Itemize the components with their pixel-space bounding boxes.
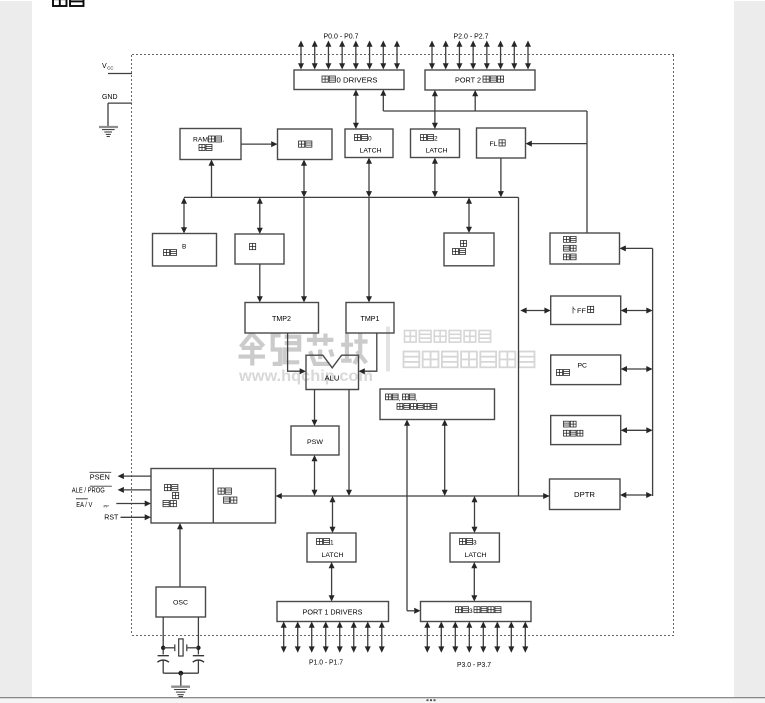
box port0 drivers <box>294 70 404 90</box>
box B register <box>153 234 217 267</box>
watermark tagline 1 <box>405 331 417 343</box>
svg-text:PSEN: PSEN <box>90 475 110 482</box>
svg-text:P2.0 - P2.7: P2.0 - P2.7 <box>454 34 489 41</box>
svg-text:PORT 2: PORT 2 <box>455 78 481 85</box>
arrow buffer to internal bus <box>525 310 546 312</box>
wire flash input from program address <box>529 143 587 145</box>
svg-text:PORT 1 DRIVERS: PORT 1 DRIVERS <box>303 609 363 616</box>
ground symbol top-left <box>99 126 118 128</box>
svg-text:B: B <box>182 244 186 251</box>
box RAM address register <box>180 129 241 160</box>
arrow RAM addr reg from bus <box>211 163 213 197</box>
svg-text:RST: RST <box>104 514 119 521</box>
page bottom separator line and strip <box>0 698 765 703</box>
svg-text:LATCH: LATCH <box>322 552 344 559</box>
box stack pointer <box>444 233 494 266</box>
arrow buffer to right rail <box>625 310 648 312</box>
wire address bus to port drivers <box>382 93 384 112</box>
svg-text:3: 3 <box>469 608 473 615</box>
wire TMP1 to ALU <box>364 333 377 371</box>
arrow DPTR to right rail <box>625 494 649 496</box>
crystal symbol <box>163 647 174 649</box>
internal bus right vertical <box>518 197 520 496</box>
port0 pin arrows <box>300 45 302 65</box>
box TMP2 <box>245 303 319 334</box>
arrow port2 drivers to port2 latch <box>434 95 436 125</box>
svg-text:OSC: OSC <box>173 600 188 607</box>
crystal junction dots <box>161 646 165 650</box>
svg-text:LATCH: LATCH <box>426 148 448 155</box>
bottom ellipsis dots <box>427 699 436 701</box>
arrow interrupt block to lower bus <box>444 424 446 492</box>
arrow bus to B register <box>183 202 185 229</box>
box port3 drivers <box>421 602 532 622</box>
box PSW <box>291 426 339 455</box>
box OSC oscillator <box>156 587 206 617</box>
wire interrupt block to port3 drivers <box>406 423 408 611</box>
crystal ground wire <box>163 672 198 674</box>
box interrupt serial timer blocks <box>380 389 495 420</box>
box program address register <box>550 233 620 264</box>
arrow lower bus to port3 latch <box>474 501 476 529</box>
wire TMP2 to ALU <box>288 333 300 371</box>
svg-text:PSW: PSW <box>307 439 324 446</box>
wire bus to TMP2 <box>303 197 305 299</box>
arrow port3 latch to port3 drivers <box>473 567 475 598</box>
svg-text:P3.0 - P3.7: P3.0 - P3.7 <box>457 662 491 669</box>
svg-text:2: 2 <box>434 136 438 143</box>
arrow port1 latch to port1 drivers <box>331 567 333 598</box>
clipped bold page title (top of hanzi cut off) <box>53 0 67 6</box>
port2 pin arrows <box>431 45 433 65</box>
box PC incrementer <box>551 355 621 385</box>
arrow RAM addr reg to memory <box>241 143 274 145</box>
wire oscillator to timing control <box>179 527 181 588</box>
watermark divider bar <box>386 327 390 372</box>
capacitor C1 <box>158 655 169 657</box>
internal bus lower rail <box>279 495 550 497</box>
watermark tagline 2 <box>404 352 420 368</box>
arrow port0 latch to bus <box>368 162 370 193</box>
page right gray margin <box>734 1 765 697</box>
svg-text:0: 0 <box>368 136 372 143</box>
arrow PC incrementer to right rail <box>625 368 648 370</box>
svg-text:P1.0 - P1.7: P1.0 - P1.7 <box>309 660 343 667</box>
box timing and control with instruction register <box>151 469 276 524</box>
svg-text:0 DRIVERS: 0 DRIVERS <box>337 78 378 85</box>
svg-text:FF: FF <box>577 308 586 315</box>
watermark big brand glyphs <box>239 334 266 366</box>
arrow lower bus to port1 latch <box>332 501 334 529</box>
ALU block with notch <box>306 355 359 389</box>
box TMP1 <box>346 303 394 334</box>
svg-text:1: 1 <box>330 540 334 547</box>
wire program address register input <box>652 248 654 496</box>
arrow memory to bus <box>303 164 305 193</box>
box flash memory <box>477 128 526 158</box>
ground symbol bottom <box>171 686 190 688</box>
box buffer <box>551 296 621 325</box>
arrow bus to ACC <box>259 202 261 230</box>
svg-text:LATCH: LATCH <box>360 148 382 155</box>
page left gray margin <box>0 1 32 697</box>
GND wire <box>108 102 132 104</box>
svg-text:TMP2: TMP2 <box>272 316 291 323</box>
arrow program counter to right rail <box>625 429 648 431</box>
box ACC <box>235 234 284 264</box>
svg-text:PP: PP <box>104 503 110 508</box>
wire bus to TMP1 <box>368 197 370 299</box>
box port0 latch <box>345 129 393 158</box>
dashed chip boundary <box>132 54 674 56</box>
box program counter <box>551 416 621 445</box>
svg-text:V: V <box>102 63 107 70</box>
svg-text:DPTR: DPTR <box>574 492 595 499</box>
arrow port0 drivers to port0 latch <box>355 94 357 125</box>
svg-text:FL: FL <box>490 141 498 148</box>
box port1 drivers <box>277 602 389 622</box>
svg-text:3: 3 <box>473 540 477 547</box>
port3 pin arrows <box>426 626 428 648</box>
svg-text:CC: CC <box>107 66 113 71</box>
arrow bus to stack pointer <box>468 202 470 229</box>
box DPTR <box>550 479 621 510</box>
box port2 latch <box>411 129 460 158</box>
arrow port2 latch to bus <box>434 162 436 193</box>
Vcc wire <box>108 73 132 75</box>
box internal RAM memory <box>278 129 333 160</box>
box port3 latch <box>450 533 499 562</box>
arrow PSW to lower bus <box>314 460 316 492</box>
wire ALU to bus <box>348 390 350 493</box>
svg-text:.: . <box>223 137 225 144</box>
svg-text:GND: GND <box>102 94 118 101</box>
wire flash to internal bus <box>500 158 502 194</box>
crystal circuit leads <box>162 617 164 655</box>
svg-text:TMP1: TMP1 <box>361 316 380 323</box>
wire ALU to PSW <box>314 390 316 423</box>
wire ACC to TMP2 <box>259 264 261 299</box>
svg-text:RAM: RAM <box>193 137 208 144</box>
svg-text:ALU: ALU <box>325 376 340 383</box>
svg-text:LATCH: LATCH <box>465 552 487 559</box>
svg-text:P0.0 - P0.7: P0.0 - P0.7 <box>324 34 359 41</box>
capacitor C2 <box>193 655 204 657</box>
port1 pin arrows <box>283 626 285 648</box>
svg-text:EA / V: EA / V <box>76 502 92 509</box>
internal bus upper rail <box>184 196 519 198</box>
box port1 latch <box>307 533 356 562</box>
svg-text:ALE / PROG: ALE / PROG <box>72 487 105 494</box>
box port2 drivers <box>425 70 535 90</box>
svg-text:PC: PC <box>578 363 588 370</box>
